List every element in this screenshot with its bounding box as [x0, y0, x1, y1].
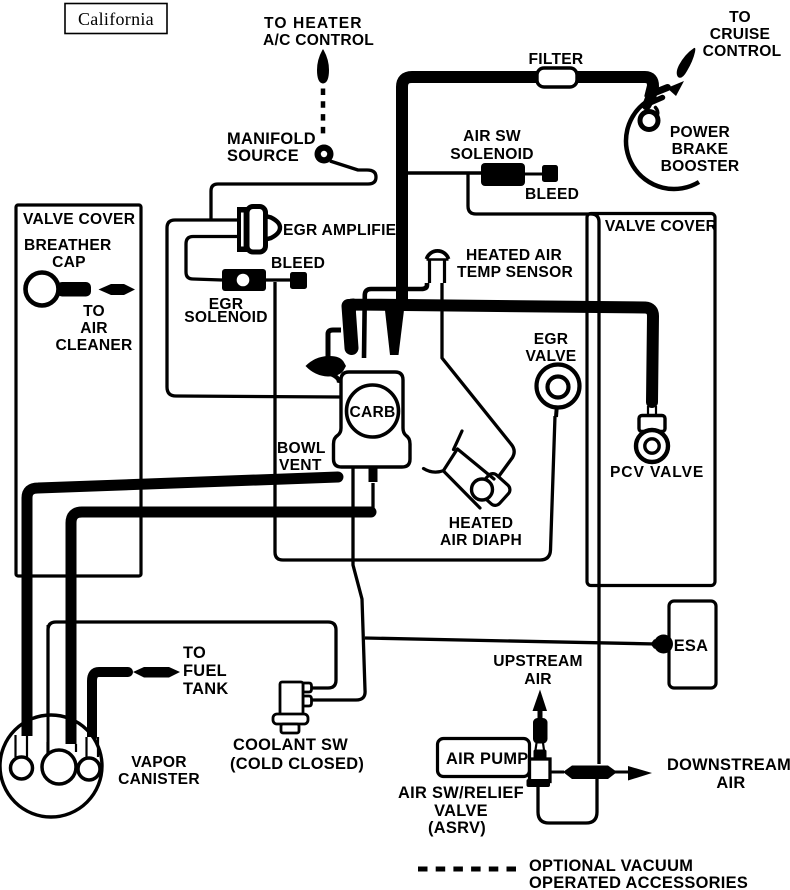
svg-text:TANK: TANK — [183, 680, 229, 698]
svg-text:BOOSTER: BOOSTER — [661, 158, 740, 175]
svg-text:AIR DIAPH: AIR DIAPH — [440, 532, 522, 549]
svg-text:SOLENOID: SOLENOID — [450, 146, 533, 163]
svg-text:CLEANER: CLEANER — [55, 337, 132, 354]
svg-text:(ASRV): (ASRV) — [428, 819, 486, 837]
svg-text:TO HEATER: TO HEATER — [264, 15, 363, 32]
svg-text:CAP: CAP — [52, 254, 86, 271]
svg-text:OPTIONAL VACUUM: OPTIONAL VACUUM — [529, 857, 693, 875]
svg-text:AIR: AIR — [524, 671, 552, 688]
svg-text:TO: TO — [83, 303, 105, 320]
svg-text:FUEL: FUEL — [183, 662, 227, 680]
svg-text:VALVE COVER: VALVE COVER — [605, 218, 717, 235]
svg-text:(COLD CLOSED): (COLD CLOSED) — [230, 755, 364, 773]
svg-text:BRAKE: BRAKE — [672, 141, 729, 158]
svg-text:AIR SW/RELIEF: AIR SW/RELIEF — [398, 784, 524, 802]
svg-text:VALVE: VALVE — [434, 802, 488, 820]
svg-text:COOLANT SW: COOLANT SW — [233, 736, 348, 754]
svg-text:BLEED: BLEED — [525, 186, 579, 203]
svg-text:OPERATED ACCESSORIES: OPERATED ACCESSORIES — [529, 874, 748, 890]
svg-text:TO: TO — [183, 644, 206, 662]
svg-text:TEMP SENSOR: TEMP SENSOR — [457, 264, 573, 281]
svg-text:MANIFOLD: MANIFOLD — [227, 130, 316, 148]
svg-text:AIR SW: AIR SW — [463, 128, 521, 145]
svg-text:VALVE: VALVE — [526, 348, 577, 365]
svg-text:DOWNSTREAM: DOWNSTREAM — [667, 756, 790, 774]
svg-text:CARB: CARB — [349, 404, 395, 421]
svg-text:ESA: ESA — [674, 637, 709, 655]
svg-text:SOLENOID: SOLENOID — [184, 309, 267, 326]
svg-text:VENT: VENT — [279, 457, 322, 474]
svg-text:HEATED AIR: HEATED AIR — [466, 247, 562, 264]
svg-text:FILTER: FILTER — [529, 51, 584, 68]
svg-text:VALVE COVER: VALVE COVER — [23, 211, 135, 228]
svg-text:CRUISE: CRUISE — [710, 26, 770, 43]
svg-text:EGR: EGR — [534, 331, 569, 348]
svg-text:California: California — [78, 9, 154, 29]
svg-text:A/C CONTROL: A/C CONTROL — [263, 32, 374, 49]
svg-text:SOURCE: SOURCE — [227, 147, 299, 165]
svg-text:HEATED: HEATED — [449, 515, 513, 532]
svg-text:AIR: AIR — [716, 774, 745, 792]
svg-text:CANISTER: CANISTER — [118, 771, 200, 788]
svg-text:AIR: AIR — [80, 320, 108, 337]
svg-text:CONTROL: CONTROL — [703, 43, 782, 60]
svg-text:AIR PUMP: AIR PUMP — [446, 750, 529, 768]
svg-text:BOWL: BOWL — [277, 440, 326, 457]
svg-text:UPSTREAM: UPSTREAM — [493, 653, 583, 670]
svg-text:PCV VALVE: PCV VALVE — [610, 464, 704, 481]
svg-text:VAPOR: VAPOR — [131, 754, 187, 771]
svg-text:BREATHER: BREATHER — [24, 237, 111, 254]
svg-text:TO: TO — [729, 9, 751, 26]
svg-text:EGR AMPLIFIER: EGR AMPLIFIER — [283, 222, 408, 239]
svg-text:BLEED: BLEED — [271, 255, 325, 272]
svg-text:POWER: POWER — [670, 124, 730, 141]
